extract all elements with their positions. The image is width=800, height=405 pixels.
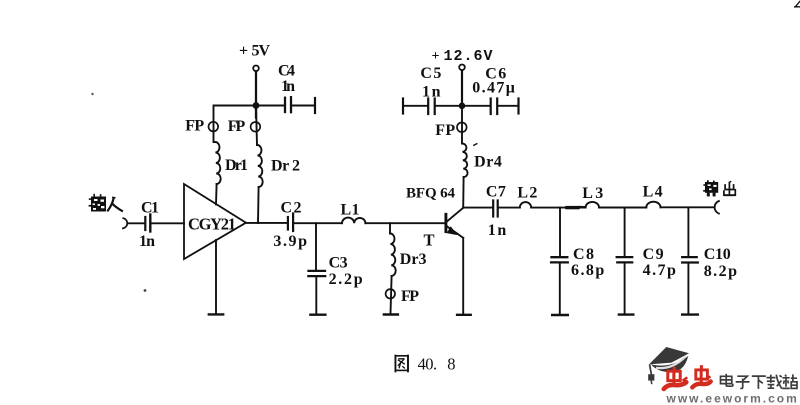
svg-text:C3: C3 (329, 255, 348, 272)
svg-text:C2: C2 (281, 200, 302, 217)
svg-text:+: + (432, 49, 440, 64)
svg-text:C4: C4 (278, 63, 295, 80)
svg-text:5V: 5V (252, 42, 271, 59)
svg-text:FP: FP (435, 122, 455, 139)
svg-text:www.eeworm.com: www.eeworm.com (666, 392, 799, 405)
svg-text:C8: C8 (573, 246, 594, 263)
svg-text:6.8p: 6.8p (571, 262, 604, 279)
svg-text:Dr 2: Dr 2 (271, 158, 300, 175)
svg-text:1n: 1n (422, 83, 441, 100)
svg-text:8: 8 (447, 354, 455, 373)
svg-text:2.2p: 2.2p (329, 271, 363, 288)
svg-text:1n: 1n (281, 78, 295, 95)
svg-text:C5: C5 (420, 65, 441, 82)
svg-text:Dr3: Dr3 (400, 251, 427, 268)
svg-text:C10: C10 (704, 246, 731, 263)
svg-text:FP: FP (185, 118, 204, 135)
svg-text:0.47μ: 0.47μ (472, 80, 515, 97)
svg-text:40.: 40. (418, 354, 438, 373)
svg-text:FP: FP (401, 288, 419, 305)
svg-text:T: T (424, 231, 435, 250)
svg-text:FP: FP (228, 118, 246, 135)
svg-text:L1: L1 (341, 202, 360, 219)
svg-text:C7: C7 (486, 183, 506, 200)
svg-text:4.7p: 4.7p (643, 262, 676, 279)
svg-text:L2: L2 (517, 184, 537, 201)
svg-text:CGY21: CGY21 (188, 215, 236, 234)
svg-text:8.2p: 8.2p (704, 263, 737, 280)
svg-text:+: + (239, 42, 248, 59)
svg-text:C1: C1 (141, 200, 159, 217)
svg-text:1n: 1n (488, 222, 507, 239)
svg-text:1n: 1n (139, 233, 155, 250)
svg-text:BFQ 64: BFQ 64 (406, 186, 456, 202)
svg-text:Dr4: Dr4 (474, 154, 502, 171)
svg-text:L3: L3 (582, 185, 603, 202)
svg-text:L4: L4 (643, 183, 663, 200)
svg-text:Dr1: Dr1 (225, 157, 248, 174)
svg-text:3.9p: 3.9p (273, 233, 307, 250)
svg-text:C9: C9 (643, 246, 664, 263)
svg-text:12.6V: 12.6V (444, 48, 493, 65)
